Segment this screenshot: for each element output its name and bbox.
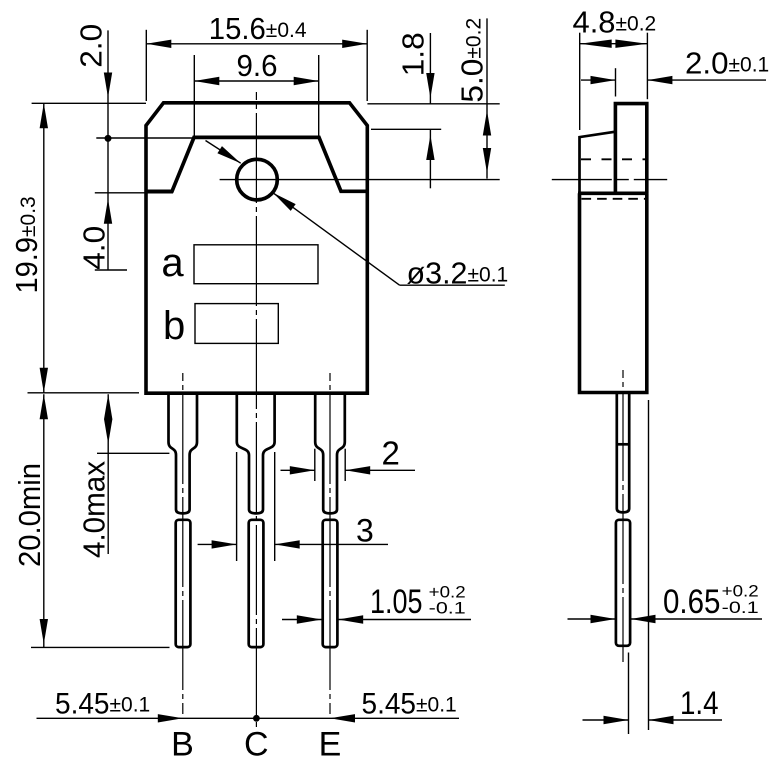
side leg cross tick (617, 443, 629, 446)
hidden hole line upper (581, 158, 646, 160)
dim 5.45 line (37, 717, 460, 719)
svg-text:2: 2 (382, 435, 400, 472)
front view body outline (146, 103, 367, 393)
svg-text:a: a (161, 241, 184, 285)
dim 15.6 extension lines (145, 30, 147, 101)
dim 9.6 line (194, 80, 318, 82)
dim 2.0 side extension line (615, 68, 617, 96)
node dot on 2.0 line (105, 135, 112, 142)
centerline leg E (329, 373, 331, 714)
svg-text:B: B (171, 726, 194, 762)
svg-text:20.0min: 20.0min (12, 463, 47, 567)
dim 4.0max line (107, 394, 109, 554)
dim 3 extension lines (236, 452, 238, 561)
centerline body and leg C (255, 92, 257, 727)
dim 20.0min line (43, 394, 45, 647)
dim 1.05 line (282, 619, 322, 621)
svg-text:-0.1: -0.1 (722, 598, 759, 617)
dim 2.0 / 4.0 shared vertical line (107, 30, 109, 270)
side leg lower segment (616, 520, 630, 646)
svg-text:9.6: 9.6 (237, 48, 278, 83)
hidden hole line lower (582, 198, 649, 200)
side horizontal centerline (552, 179, 667, 181)
horizontal centerline through hole (220, 179, 500, 181)
dim 9.6 extension lines (193, 55, 195, 136)
dim 4.0 end tick (95, 269, 127, 271)
dim 2 extension lines (314, 449, 316, 481)
leg E upper part (315, 392, 345, 514)
dim 4.0 arrow (104, 199, 112, 224)
dim 1.4 line (583, 719, 629, 721)
front view heatsink tab inner outline (146, 137, 367, 191)
svg-text:b: b (163, 304, 185, 348)
tab top level extension line (96, 137, 193, 139)
svg-text:1.4: 1.4 (680, 685, 719, 721)
hole leader line upper (206, 141, 241, 164)
leg B lower segment (176, 520, 191, 647)
dim 2.0 side line (581, 79, 616, 81)
dim 0.65 line (568, 618, 616, 620)
dim 4.8 line (580, 43, 648, 45)
svg-text:0.65: 0.65 (663, 583, 721, 621)
side view tab (615, 104, 646, 194)
tab bottom extension line (95, 192, 173, 194)
side view main body (580, 193, 647, 392)
dim 4.8 extension lines (579, 33, 581, 130)
svg-text:-0.1: -0.1 (429, 599, 466, 618)
side view tab bottom line (578, 192, 648, 196)
svg-text:E: E (319, 726, 342, 762)
centerline leg B (182, 373, 184, 714)
svg-text:3: 3 (356, 513, 374, 549)
body top extension line left (32, 102, 146, 104)
dim 3 line (198, 543, 237, 545)
dim 1.4 extension lines (628, 653, 630, 735)
taper level extension line (97, 452, 169, 454)
marking area rectangle b (195, 304, 278, 344)
svg-text:1.05: 1.05 (370, 583, 423, 621)
svg-text:1.8: 1.8 (396, 32, 431, 76)
leg B upper part (169, 392, 198, 514)
leg C lower segment (249, 520, 264, 647)
side leg centerline (622, 370, 624, 662)
leg E lower segment (323, 520, 338, 647)
mounting hole (237, 159, 278, 200)
chamfer level extension line (371, 128, 441, 130)
svg-text:4.0max: 4.0max (77, 461, 112, 558)
hole leader line lower (273, 193, 400, 285)
dim 1.8 line (429, 33, 431, 104)
marking area rectangle a (194, 245, 318, 284)
dim 15.6 line (146, 43, 367, 45)
body bottom extension line left (28, 392, 140, 394)
svg-text:2.0: 2.0 (74, 24, 109, 68)
side view chamfered ledge (580, 132, 616, 194)
leg C upper part (237, 392, 275, 514)
dim 5.0 line (486, 18, 488, 178)
dim 19.9 line (43, 103, 45, 393)
svg-text:C: C (244, 726, 269, 762)
leg tip extension line (31, 646, 170, 648)
node dot at C centerline (253, 715, 260, 722)
dim 2 line (281, 469, 315, 471)
svg-text:4.0: 4.0 (77, 226, 112, 270)
body top extension line right (367, 103, 499, 105)
side leg upper part (617, 394, 629, 512)
